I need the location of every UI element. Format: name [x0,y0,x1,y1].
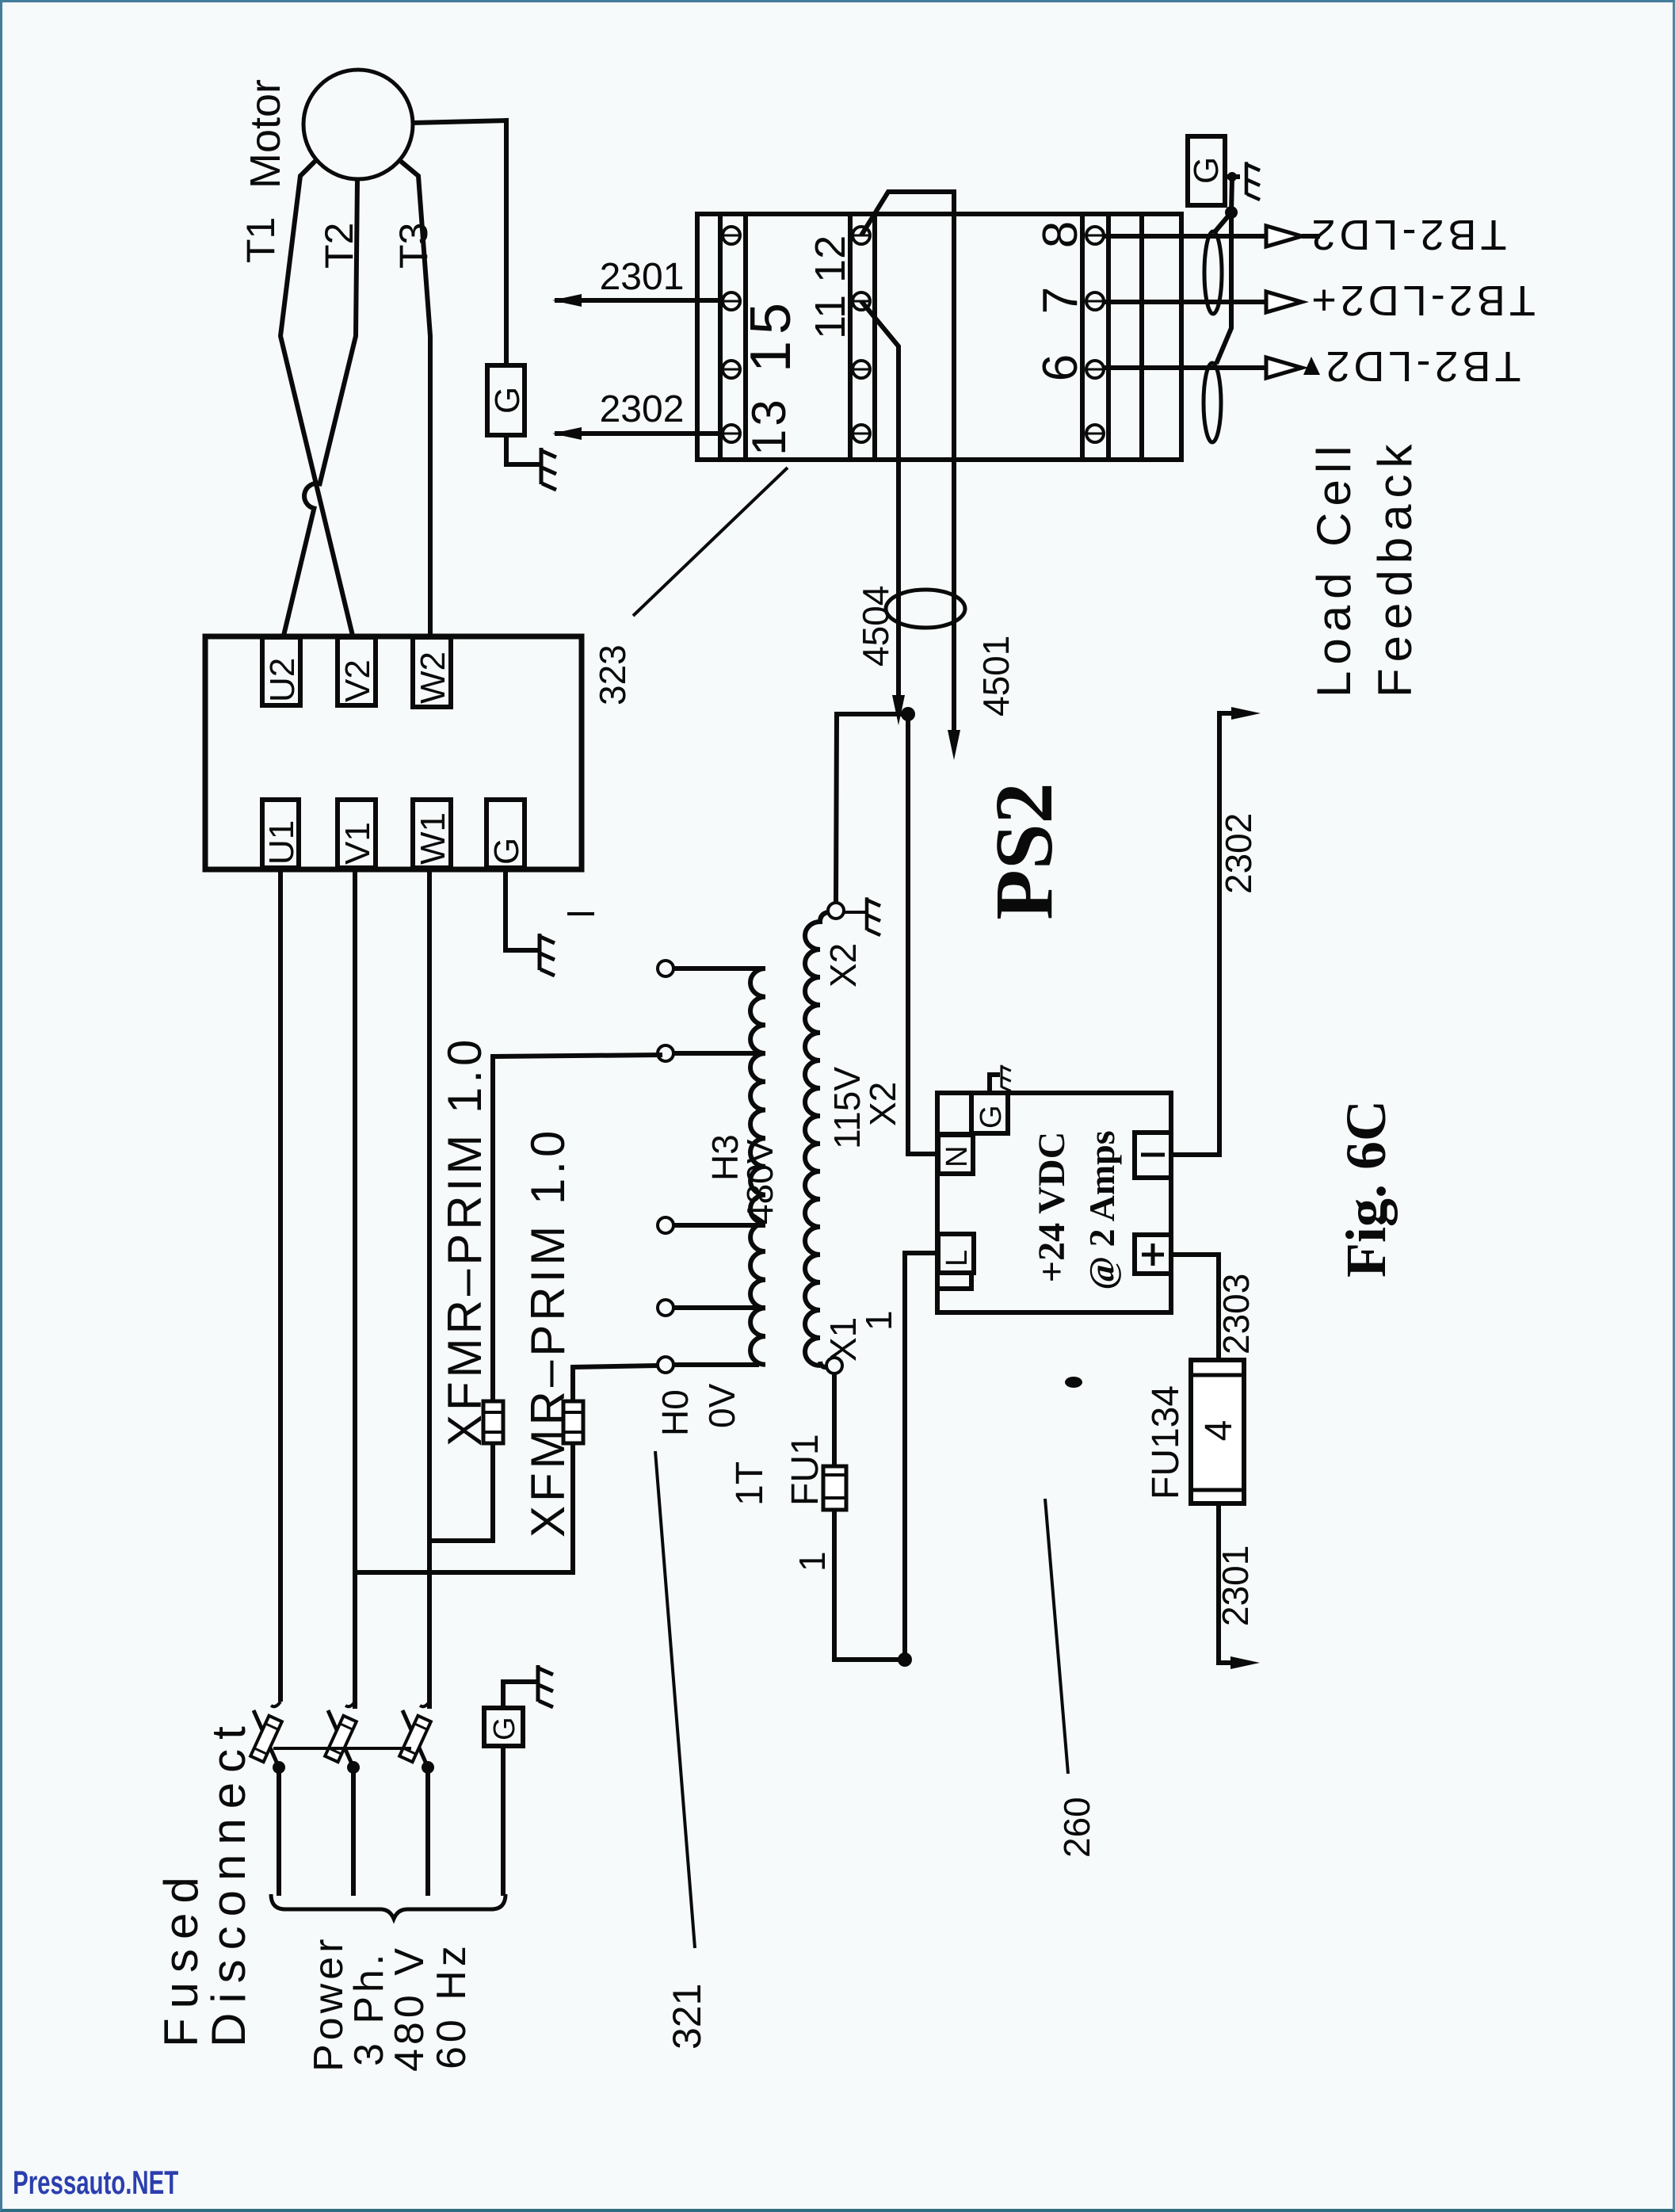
svg-text:G: G [488,1717,521,1740]
svg-text:V2: V2 [338,659,377,702]
wire X1 to FU1 [832,1373,837,1466]
terminal tab W2 [413,637,451,707]
svg-text:15: 15 [739,296,803,372]
screw terminal rail2 pos1 [853,227,870,244]
primary tap terminal circle 4 [658,1300,673,1316]
screw terminal rail3 pos1 [1086,227,1104,244]
svg-text:PS2: PS2 [979,782,1070,919]
leader line for 321 [655,1451,695,1948]
cable marker ellipse rows 8-7 [1204,231,1222,314]
ground symbol at disconnect [538,1665,553,1707]
primary tap terminal circle 2 [658,1045,673,1061]
fuse XFMR-PRIM 2 [563,1401,583,1443]
arrow row 8 [1266,226,1302,246]
wire 2302 with arrow [555,431,723,436]
svg-text:Power: Power [306,1935,352,2072]
wire below FU134 [1219,1503,1236,1663]
primary tap line 3 [673,1223,765,1228]
svg-text:323: 323 [592,644,633,705]
primary tap line H0 [673,1362,759,1367]
junction dot on shield stem [1227,172,1237,181]
arrowhead 2301 out [1230,1656,1260,1669]
svg-text:1: 1 [858,1310,899,1331]
fuse1 cap line bottom [483,1431,503,1434]
wire W1 branch to fuse1 [429,1443,493,1541]
fuse2 cap line bottom [563,1431,583,1434]
primary tap line 4 [673,1305,765,1310]
svg-text:FU1: FU1 [784,1434,826,1506]
svg-text:TB2-LD2: TB2-LD2 [1307,211,1506,258]
wire motor frame ground lead [413,120,506,365]
disconnect terminal dot 1 [273,1761,285,1774]
fuse XFMR-PRIM 1 [483,1401,503,1443]
svg-text:4501: 4501 [975,636,1017,716]
terminal tab U2 [262,637,300,705]
svg-text:T3: T3 [391,223,436,269]
svg-text:2302: 2302 [1218,813,1259,894]
wire end hook phase 2 [345,1702,355,1706]
ground symbol at strip [1246,162,1260,200]
svg-text:60 Hz: 60 Hz [429,1942,475,2069]
svg-text:G: G [487,838,526,865]
ground lug G2 on terminal strip [1188,136,1225,205]
wire V1 branch to fuse2 [355,1443,573,1572]
svg-text:Feedback: Feedback [1368,438,1421,698]
terminal tab N [938,1135,973,1174]
svg-text:@ 2 Amps: @ 2 Amps [1082,1130,1122,1289]
divider line PS2 top-left [937,1132,971,1135]
svg-text:321: 321 [665,1984,709,2050]
svg-text:3 Ph.: 3 Ph. [346,1950,392,2066]
wire 2301 with arrow [555,298,723,303]
svg-text:G: G [488,387,527,414]
svg-text:Motor: Motor [242,79,289,189]
secondary bottom link [820,1362,827,1367]
terminal strip rail line b [743,214,748,460]
motor M1 body [303,70,413,179]
wire disconnect lug to ground [503,1682,536,1708]
svg-text:XFMR–PRIM 1.0: XFMR–PRIM 1.0 [438,1036,491,1446]
secondary bottom terminal X1 [826,1358,842,1373]
svg-text:Fused: Fused [155,1867,208,2047]
arrowhead 4501 down [948,730,960,760]
label plus v [1151,1244,1155,1266]
svg-text:4504: 4504 [855,586,896,667]
svg-text:TB2-LD2: TB2-LD2 [1322,342,1520,390]
wire terminal 12 to cable 4501 [861,192,954,731]
wire PS2 lug to ground [990,1075,1000,1093]
wire terminal 11 to cable 4504 [861,301,899,696]
ground symbol at PS2 [1002,1065,1011,1091]
svg-text:FU134: FU134 [1145,1385,1187,1499]
svg-text:Pressauto.NET: Pressauto.NET [13,2164,178,2202]
wire phase V1 down [353,868,357,1709]
screw terminal rail2 pos4 [853,425,870,442]
terminal tab U1 [262,800,299,868]
screw terminal rail3 pos2 [1086,292,1104,310]
primary tap line 2 [673,1051,765,1056]
terminal tab V1 [338,800,376,868]
svg-text:H0: H0 [654,1389,696,1436]
ground symbol below box323 [540,934,555,976]
svg-text:V1: V1 [338,822,377,865]
wire fuse2 to tap H0 [573,1366,658,1401]
fuse FU134 [1191,1360,1244,1503]
ground lug G on PS2 [971,1093,1008,1133]
wire disconnect lug down [501,1746,506,1896]
arrowhead 4504 down [892,695,905,725]
svg-text:2301: 2301 [1215,1545,1256,1626]
wire row terminal 6 [1103,365,1265,370]
wire bridge down to N tab [908,714,938,1154]
leader line for 260 [1045,1499,1068,1774]
primary tap terminal circle 1 [658,961,673,976]
tab L lower compartment [938,1273,971,1289]
label plus h [1142,1253,1164,1257]
terminal strip rail line e [1080,214,1085,460]
screw terminal rail3 pos3 [1086,361,1104,378]
svg-text:1T: 1T [729,1461,771,1506]
svg-text:7: 7 [1033,287,1088,314]
wire row terminal 7 [1103,300,1265,304]
terminal strip rail line c [848,214,853,460]
svg-text:W2: W2 [414,651,452,704]
screw terminal rail1 pos3 [723,361,740,378]
primary tap terminal circle H0 [658,1357,673,1373]
disconnect fuse body 1 [250,1716,282,1762]
svg-text:T2: T2 [317,223,361,269]
ground symbol at X2 [867,897,880,935]
wire junction up to L [905,1253,938,1660]
svg-text:Load Cell: Load Cell [1307,439,1360,697]
svg-text:2301: 2301 [600,256,685,298]
wire motor lead T3 [399,160,430,639]
power supply box [937,1093,1171,1312]
terminal tab V2 [338,637,376,705]
FU134 cap line top [1191,1373,1244,1377]
wire phase W1 down [427,868,432,1709]
svg-text:G: G [1187,157,1226,184]
wire row terminal 8 [1103,234,1265,239]
secondary top terminal X2 [828,903,844,919]
wire FU1 to junction [834,1510,905,1660]
wire end hook phase 1 [271,1702,280,1706]
cable marker ellipse row 6 [1204,363,1221,442]
triangle glyph row 6 [1303,357,1320,375]
svg-text:Fig. 6C: Fig. 6C [1334,1100,1398,1278]
svg-text:Disconnect: Disconnect [202,1717,255,2047]
screw terminal rail1 pos4 [723,425,740,442]
leader line for 323 [633,468,788,616]
terminal box 323 [205,636,582,869]
screw terminal rail3 pos4 [1086,425,1104,442]
wire phase U1 down [278,868,283,1702]
disconnect fuse body 2 [325,1716,357,1762]
svg-text:G: G [975,1105,1008,1129]
cable marker ellipse for 4504/4501 [886,590,965,628]
primary tap line 1 [673,966,765,971]
wire end hook phase 3 [420,1702,429,1706]
wire minus output [1171,713,1236,1155]
arrowhead 2302 out [1231,707,1261,720]
fuse2 cap line top [563,1411,583,1414]
arrow row 7 [1266,292,1302,312]
secondary winding coil [805,912,828,1366]
terminal tab plus [1135,1235,1171,1274]
ground symbol at motor [541,448,556,490]
wire below motor ground lug [506,435,540,464]
svg-text:8: 8 [1033,221,1088,248]
disconnect tie bar [273,1747,411,1750]
svg-text:W1: W1 [414,812,452,865]
primary tap terminal circle 3 [658,1217,673,1233]
svg-text:L: L [941,1250,974,1266]
wire below disconnect 1 [277,1767,281,1896]
wire motor lead T1 [280,160,353,639]
disconnect blade 3 [403,1710,428,1767]
svg-text:480 V: 480 V [387,1944,433,2072]
svg-text:TB2-LD2+: TB2-LD2+ [1307,277,1536,324]
svg-text:U2: U2 [263,658,302,702]
screw terminal rail2 pos3 [853,361,870,378]
stray blob [1065,1377,1082,1388]
disconnect terminal dot 3 [422,1761,434,1774]
svg-text:XFMR–PRIM 1.0: XFMR–PRIM 1.0 [521,1127,574,1538]
svg-text:2303: 2303 [1215,1274,1257,1354]
svg-text:T1: T1 [238,217,283,263]
fuse1 cap line top [483,1411,503,1414]
svg-text:11 12: 11 12 [807,235,854,339]
svg-text:N: N [941,1146,974,1167]
wire fuse1 to tap H2 [493,1055,662,1401]
svg-text:X2: X2 [862,1082,903,1126]
svg-text:U1: U1 [262,820,301,865]
disconnect blade 1 [254,1710,279,1767]
svg-text:2302: 2302 [600,388,685,430]
svg-text:+24 VDC: +24 VDC [1031,1132,1073,1282]
stray dash mark [567,912,594,915]
wire shield to cable 1 [1214,212,1231,233]
FU1 cap line top [823,1473,846,1477]
arrowhead 2302 [552,427,582,440]
disconnect terminal dot 2 [347,1761,360,1774]
disconnect fuse body 3 [399,1716,431,1762]
svg-text:1: 1 [792,1551,833,1572]
FU134 cap line bottom [1191,1488,1244,1492]
ground lug G1 at motor [487,365,525,435]
terminal tab W1 [413,800,451,868]
terminal strip rail line f [1106,214,1111,460]
FU1 cap line bottom [823,1496,846,1499]
junction dot top bridge [901,707,915,721]
fuse FU1 [823,1466,846,1510]
svg-text:X2: X2 [822,943,864,988]
arrowhead 2301 [552,294,582,307]
wire after arrow row 8 [1302,234,1320,239]
terminal strip rail line a [718,214,723,460]
wire strip lug to ground [1225,174,1240,179]
wire plus output [1171,1255,1219,1360]
wire below disconnect 3 [425,1767,430,1896]
terminal strip outer box [697,214,1181,460]
terminal strip rail line d [872,214,877,460]
svg-text:0V: 0V [701,1383,742,1428]
terminal tab minus [1135,1133,1171,1178]
ground lug G4 disconnect [484,1708,523,1746]
screw terminal rail2 pos2 [853,292,870,310]
screw terminal rail1 pos1 [723,227,740,244]
arrow row 6 [1266,357,1302,378]
brace under power wires [271,1894,506,1919]
wire shield drop [1231,177,1232,212]
ground stem at X2 [844,911,865,914]
junction dot shield split [1225,206,1238,219]
svg-text:260: 260 [1056,1797,1097,1858]
junction dot bottom rail [898,1652,912,1667]
terminal strip rail line g [1139,214,1144,460]
wire below disconnect 2 [351,1767,356,1896]
disconnect blade 2 [328,1710,353,1767]
svg-text:6: 6 [1033,354,1088,381]
svg-text:13: 13 [742,396,796,456]
svg-text:480V: 480V [739,1139,780,1224]
wire motor lead T2 with crossover hop [283,179,357,639]
primary winding coil [750,968,765,1365]
label minus bar [1141,1153,1165,1157]
svg-text:4: 4 [1198,1420,1240,1442]
terminal tab L [938,1234,974,1273]
wire shield to cable 2 [1216,212,1231,364]
wire X2 up and over to N [836,714,908,903]
screw terminal rail1 pos2 [723,292,740,310]
wire box323 G to ground [506,868,538,950]
terminal tab G box323 [486,800,525,868]
